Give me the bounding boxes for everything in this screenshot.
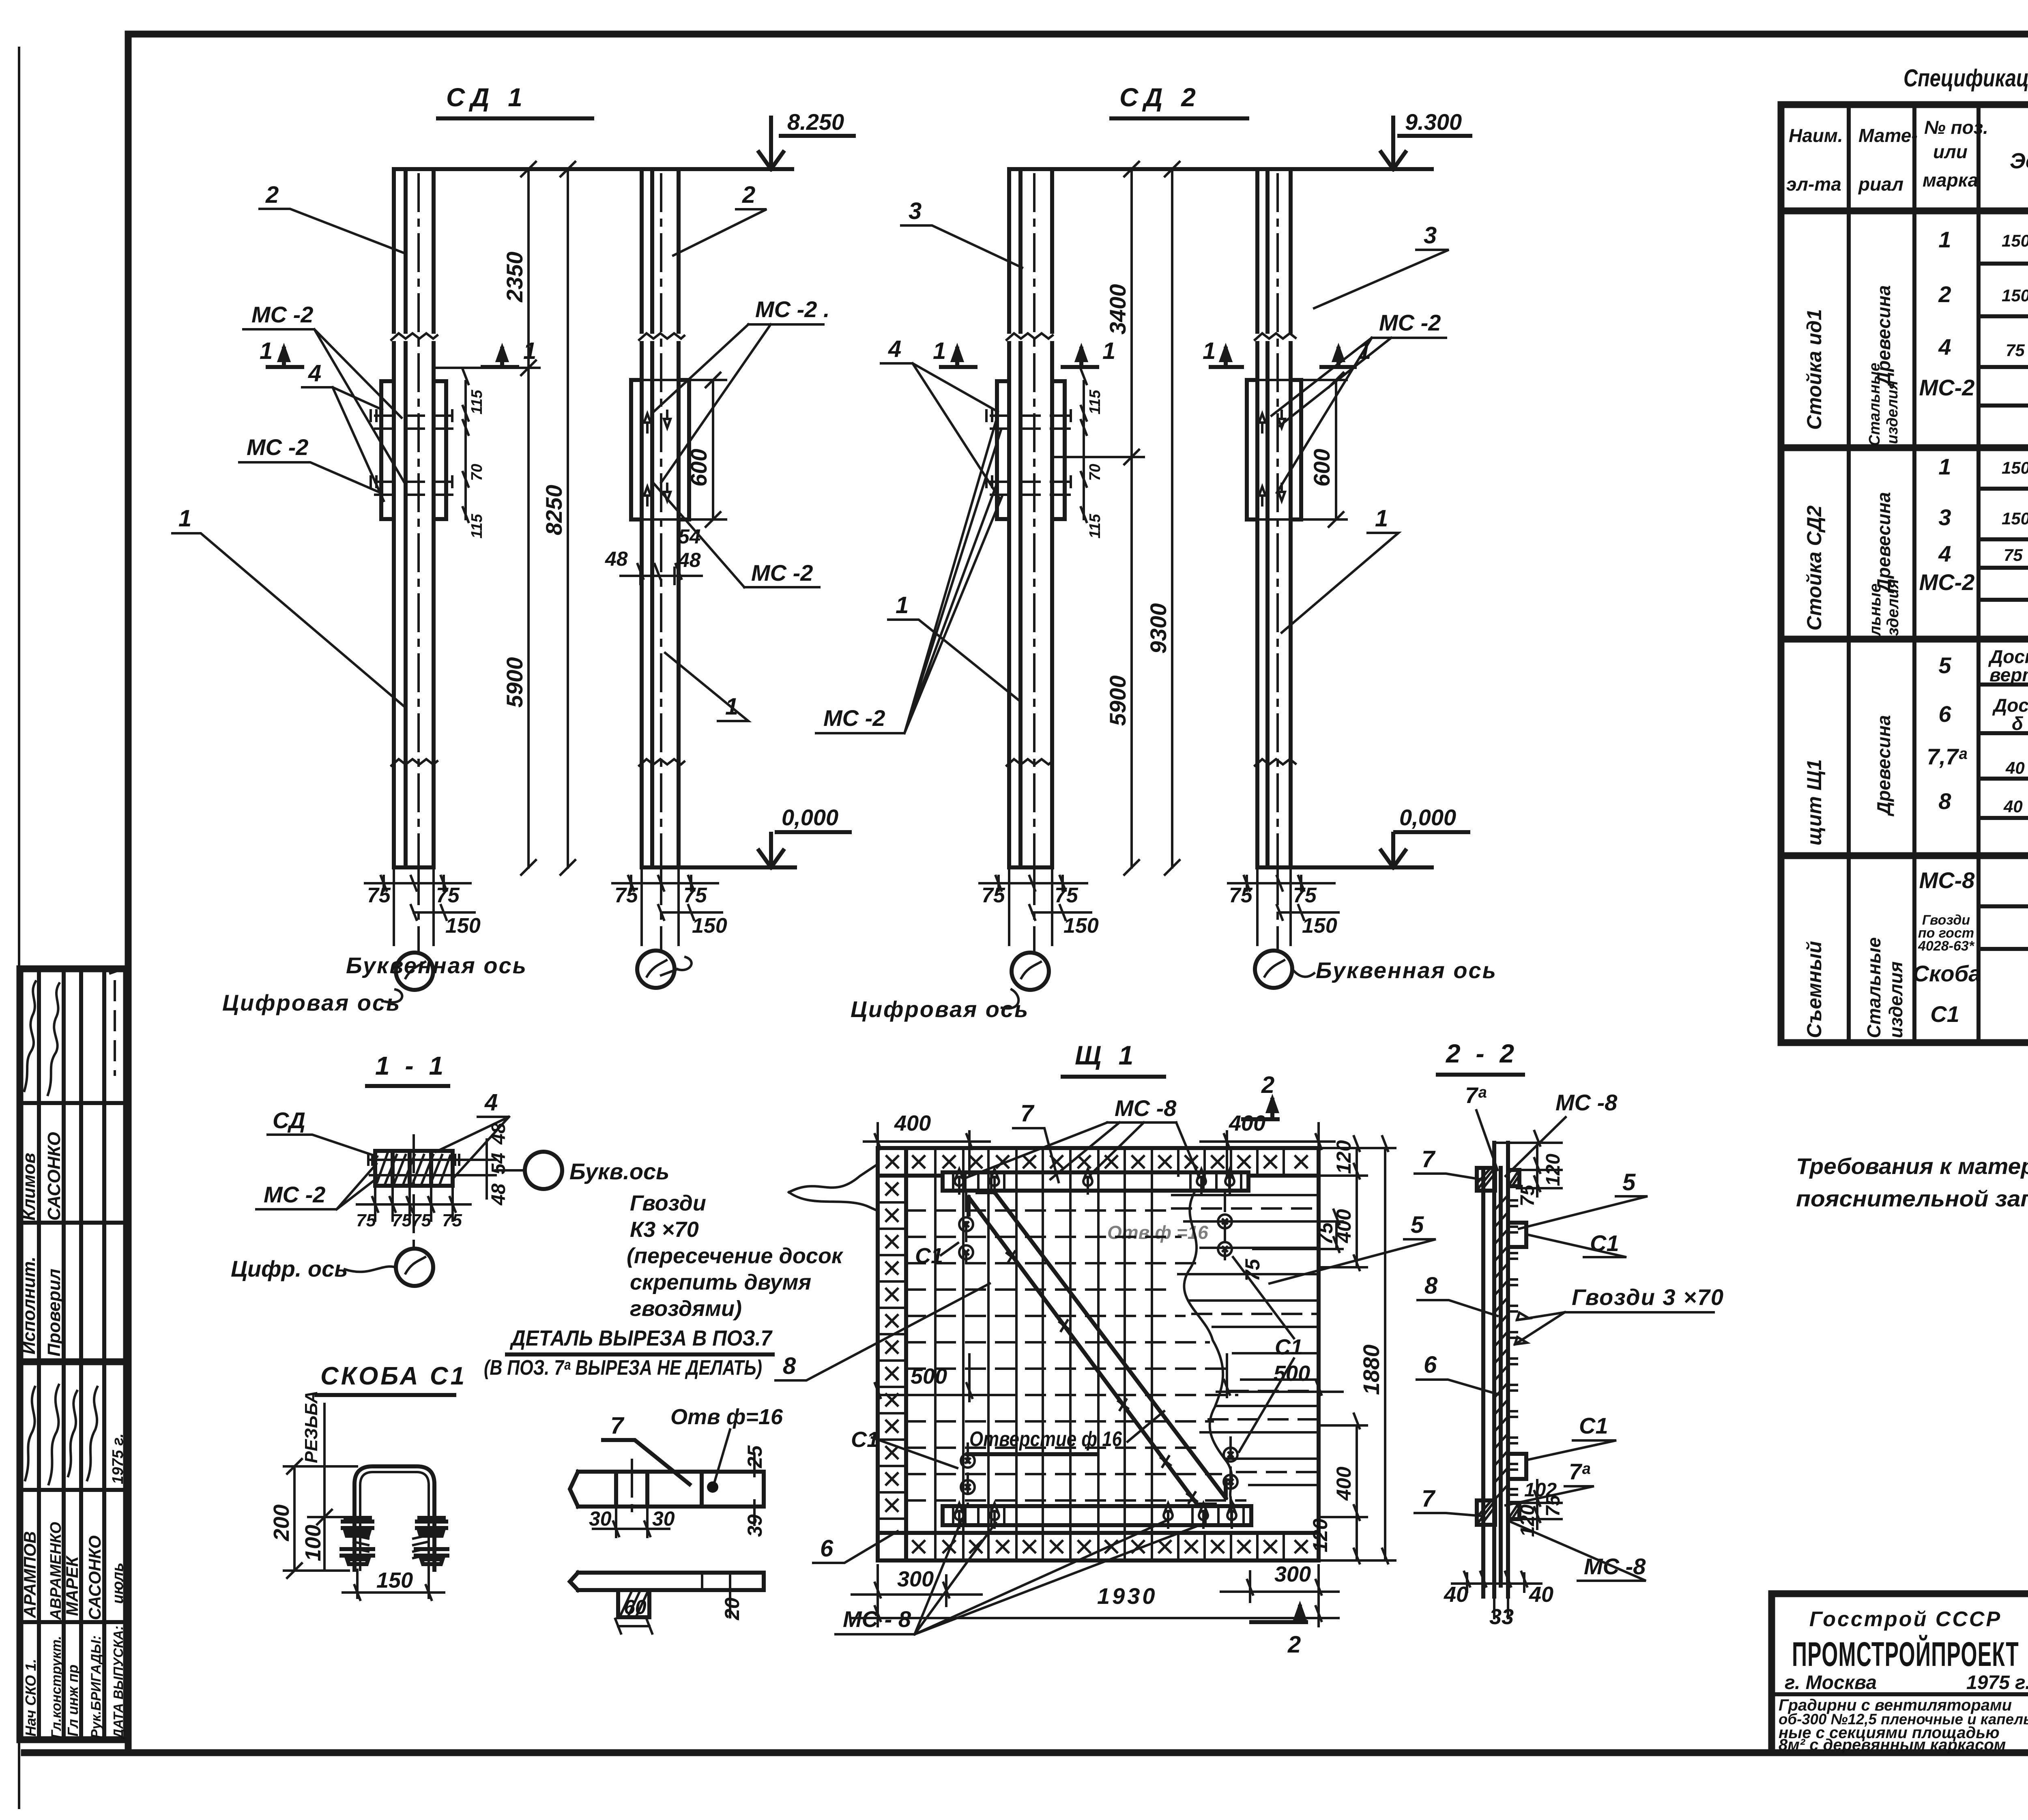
dim 600 (B) xyxy=(706,373,720,527)
2-2 staple top xyxy=(1508,1223,1526,1247)
svg-text:(В ПОЗ. 7ᵃ ВЫРЕЗА НЕ ДЕЛАТЬ): (В ПОЗ. 7ᵃ ВЫРЕЗА НЕ ДЕЛАТЬ) xyxy=(484,1356,762,1380)
svg-text:300: 300 xyxy=(897,1567,934,1591)
break mark D1 xyxy=(1255,333,1295,340)
svg-text:120: 120 xyxy=(1332,1140,1355,1174)
svg-text:40: 40 xyxy=(1529,1582,1553,1607)
svg-text:7ᵃ: 7ᵃ xyxy=(1569,1459,1590,1484)
svg-text:изделия: изделия xyxy=(1885,962,1906,1038)
x marks bottom band xyxy=(913,1541,924,1552)
svg-text:9.300: 9.300 xyxy=(1405,109,1462,135)
dims 60 20 xyxy=(615,1619,652,1633)
right dim chain 120/400 top xyxy=(1319,1136,1395,1270)
axis circle D xyxy=(1255,951,1292,988)
1-1 bottom dims 75x4 xyxy=(357,1186,470,1221)
axis circle C xyxy=(1012,953,1049,990)
svg-text:75: 75 xyxy=(614,884,638,907)
dim line A2: 8250 xyxy=(567,169,569,867)
svg-text:75: 75 xyxy=(442,1210,462,1230)
joint extent lines D xyxy=(1257,380,1347,519)
svg-text:150: 150 xyxy=(2002,509,2028,528)
wavy break boundary xyxy=(1184,1192,1235,1506)
left cell: org xyxy=(1772,1692,2028,1696)
bottom dims D xyxy=(1228,867,1338,945)
bar bottom view xyxy=(570,1573,764,1590)
break mark B1 xyxy=(639,333,684,340)
svg-text:МС -2: МС -2 xyxy=(251,302,313,327)
svg-text:5: 5 xyxy=(1411,1212,1424,1238)
svg-text:ДЕТАЛЬ ВЫРЕЗА В ПОЗ.7: ДЕТАЛЬ ВЫРЕЗА В ПОЗ.7 xyxy=(509,1326,773,1350)
svg-text:риал: риал xyxy=(1858,174,1903,195)
svg-text:Эскиз: Эскиз xyxy=(2010,149,2028,173)
dim line C1: 3400/5900 xyxy=(1052,169,1144,867)
2-2 plank end ticks xyxy=(1508,1200,1517,1495)
nail marks on brace xyxy=(1007,1251,1197,1503)
staple dims 75 xyxy=(1253,1210,1343,1252)
svg-text:МС -2: МС -2 xyxy=(751,560,813,586)
right dim chain 400/120 bottom xyxy=(1319,1414,1395,1563)
svg-text:Гл.конструкт.: Гл.конструкт. xyxy=(49,1636,64,1738)
Букв.ось circle (1-1) xyxy=(525,1152,562,1189)
top extension line СД2 xyxy=(1009,167,1432,171)
dims 30 30 xyxy=(593,1507,669,1537)
top band cell dividers xyxy=(935,1148,1284,1176)
svg-text:500: 500 xyxy=(911,1364,947,1389)
section divider thick lines xyxy=(1781,448,2028,856)
svg-text:Древесина: Древесина xyxy=(1873,715,1894,817)
svg-text:7: 7 xyxy=(1422,1485,1436,1512)
dim 1880 xyxy=(1382,1136,1388,1563)
break mark C2 xyxy=(1007,759,1053,766)
2-2 bottom batten block xyxy=(1477,1500,1495,1525)
svg-text:САСОНКО: САСОНКО xyxy=(85,1535,104,1620)
left x-band line xyxy=(904,1148,908,1560)
break mark A1 xyxy=(391,333,437,340)
paper edge trim line xyxy=(18,48,20,1808)
svg-text:Цифровая ось: Цифровая ось xyxy=(851,996,1029,1022)
svg-text:3: 3 xyxy=(1424,222,1437,249)
svg-text:СД: СД xyxy=(273,1107,305,1133)
svg-text:изделия: изделия xyxy=(1884,381,1901,444)
svg-text:75: 75 xyxy=(1314,1222,1337,1245)
svg-text:СД 1: СД 1 xyxy=(446,83,528,112)
svg-text:Съемный: Съемный xyxy=(1803,941,1826,1038)
body rows text xyxy=(1913,225,2028,1042)
svg-text:120: 120 xyxy=(1309,1518,1332,1552)
svg-text:40: 40 xyxy=(2003,797,2023,816)
svg-text:1: 1 xyxy=(1938,227,1951,252)
svg-text:75: 75 xyxy=(1542,1494,1564,1517)
svg-text:5900: 5900 xyxy=(1105,675,1130,726)
post outline xyxy=(394,169,434,867)
break mark D2 xyxy=(1255,759,1295,766)
svg-text:75: 75 xyxy=(356,1210,376,1230)
svg-text:1: 1 xyxy=(933,338,946,364)
svg-text:Стальные: Стальные xyxy=(1863,937,1884,1038)
svg-text:25: 25 xyxy=(743,1445,766,1468)
svg-text:марка: марка xyxy=(1923,170,1978,191)
svg-text:Проверил: Проверил xyxy=(44,1269,64,1356)
svg-text:Нач СКО 1.: Нач СКО 1. xyxy=(22,1659,39,1736)
svg-text:8: 8 xyxy=(1424,1273,1438,1299)
svg-text:пояснительной записки.: пояснительной записки. xyxy=(1796,1186,2028,1211)
svg-text:7: 7 xyxy=(1020,1100,1035,1127)
post axis xyxy=(417,174,420,867)
svg-text:5900: 5900 xyxy=(502,657,527,708)
left band cell dividers xyxy=(878,1202,906,1519)
frame bottom line xyxy=(24,1749,2028,1756)
svg-text:7: 7 xyxy=(610,1412,625,1439)
lower stamp rotated labels xyxy=(20,1434,127,1740)
svg-text:4028-63*: 4028-63* xyxy=(1918,938,1975,954)
svg-text:Требования к материалам и и: Требования к материалам и их изготовлени… xyxy=(1796,1153,2028,1179)
bottom line C xyxy=(1009,865,1052,869)
2-2 staple bottom xyxy=(1508,1454,1526,1479)
bottom dims A: 75 75 150 xyxy=(365,867,475,945)
svg-text:скрепить двумя: скрепить двумя xyxy=(630,1270,811,1294)
svg-text:40: 40 xyxy=(1444,1582,1468,1607)
wavy leaders to panel xyxy=(789,1165,877,1192)
svg-text:115: 115 xyxy=(468,390,486,414)
svg-text:Отверстие ф 16: Отверстие ф 16 xyxy=(969,1427,1122,1451)
svg-text:75: 75 xyxy=(2006,341,2025,360)
svg-text:СД 2: СД 2 xyxy=(1119,83,1201,112)
svg-text:Стойка СД2: Стойка СД2 xyxy=(1803,505,1826,631)
svg-text:75: 75 xyxy=(392,1210,412,1230)
svg-text:2: 2 xyxy=(1938,281,1951,307)
svg-text:2: 2 xyxy=(1287,1631,1301,1658)
svg-text:Цифровая ось: Цифровая ось xyxy=(222,990,401,1015)
batten bolts bottom xyxy=(955,1503,964,1528)
svg-text:33: 33 xyxy=(1489,1605,1514,1629)
svg-text:75: 75 xyxy=(436,884,460,907)
svg-text:Стойка ид1: Стойка ид1 xyxy=(1803,309,1826,430)
svg-text:115: 115 xyxy=(1087,514,1104,539)
svg-text:5: 5 xyxy=(1938,652,1951,678)
svg-text:СКОБА С1: СКОБА С1 xyxy=(320,1362,467,1390)
top batten pos7 xyxy=(943,1172,1248,1191)
svg-text:(пересечение досок: (пересечение досок xyxy=(627,1244,844,1268)
svg-text:щит Щ1: щит Щ1 xyxy=(1803,759,1826,846)
svg-text:Исполнит.: Исполнит. xyxy=(19,1257,39,1354)
svg-text:4: 4 xyxy=(1938,541,1951,567)
1-1 bolts xyxy=(368,1155,459,1175)
svg-text:70: 70 xyxy=(1087,464,1104,481)
svg-text:С1: С1 xyxy=(1930,1001,1959,1027)
svg-text:48: 48 xyxy=(605,547,628,570)
bottom batten xyxy=(943,1506,1251,1525)
svg-text:600: 600 xyxy=(686,449,711,487)
svg-text:4: 4 xyxy=(484,1089,498,1116)
svg-text:1930: 1930 xyxy=(1097,1583,1158,1609)
svg-text:Спецификация материалов на: Спецификация материалов на один элемент xyxy=(1903,64,2028,92)
svg-text:2: 2 xyxy=(742,182,755,208)
svg-text:2 - 2: 2 - 2 xyxy=(1446,1039,1518,1068)
svg-text:150: 150 xyxy=(692,914,727,938)
svg-text:Климов: Климов xyxy=(19,1153,39,1221)
header bottom line xyxy=(1781,208,2028,215)
svg-text:САСОНКО: САСОНКО xyxy=(44,1132,64,1221)
nuts and washers xyxy=(343,1518,372,1536)
batten bolts top xyxy=(955,1169,964,1193)
svg-text:АВРАМЕНКО: АВРАМЕНКО xyxy=(47,1522,64,1620)
bolts C row1 xyxy=(991,416,1071,429)
svg-text:150: 150 xyxy=(376,1568,413,1592)
svg-text:Цифр. ось: Цифр. ось xyxy=(231,1256,348,1281)
dim 150 xyxy=(343,1570,444,1600)
svg-text:эл-та: эл-та xyxy=(1786,174,1841,195)
bar top view xyxy=(570,1472,764,1507)
staples С1 top-right xyxy=(1218,1215,1232,1228)
panel outer rect xyxy=(878,1148,1319,1560)
svg-text:75: 75 xyxy=(1055,884,1078,907)
svg-text:МС -2: МС -2 xyxy=(264,1182,325,1207)
title block frame xyxy=(1772,1594,2028,1753)
svg-text:2: 2 xyxy=(265,182,279,208)
1-1 packet cross-section xyxy=(375,1151,453,1186)
svg-text:8м² с деревянным каркасом: 8м² с деревянным каркасом xyxy=(1779,1736,2006,1754)
svg-text:1 - 1: 1 - 1 xyxy=(375,1051,447,1080)
dashed lines right half offset xyxy=(1172,1208,1319,1472)
svg-text:7ᵃ: 7ᵃ xyxy=(1465,1082,1487,1108)
svg-text:75: 75 xyxy=(683,884,707,907)
svg-text:Букв.ось: Букв.ось xyxy=(569,1159,669,1184)
svg-text:МС-8: МС-8 xyxy=(1919,867,1975,893)
svg-text:150: 150 xyxy=(2002,458,2028,477)
svg-text:3: 3 xyxy=(1938,504,1951,530)
svg-text:54: 54 xyxy=(678,525,701,548)
svg-text:МС -2: МС -2 xyxy=(1379,310,1441,335)
2-2 top plate right xyxy=(1508,1170,1519,1186)
svg-text:МС-2: МС-2 xyxy=(1919,375,1975,400)
svg-text:4: 4 xyxy=(308,360,321,386)
svg-text:Буквенная ось: Буквенная ось xyxy=(346,953,527,978)
diagonal brace pos8 xyxy=(969,1192,1226,1505)
svg-text:Отв ф =16: Отв ф =16 xyxy=(1107,1222,1208,1243)
svg-text:Скоба: Скоба xyxy=(1913,961,1981,986)
svg-text:С1: С1 xyxy=(1579,1413,1608,1438)
svg-text:75: 75 xyxy=(1229,884,1253,907)
svg-text:30: 30 xyxy=(589,1507,612,1530)
2-2 top batten block xyxy=(1477,1168,1495,1191)
svg-text:г. Москва: г. Москва xyxy=(1785,1672,1877,1693)
svg-text:МС -2: МС -2 xyxy=(823,705,885,731)
dim line A1: 2350/5900 xyxy=(434,169,539,867)
svg-text:Гвозди: Гвозди xyxy=(630,1191,706,1215)
svg-text:70: 70 xyxy=(468,464,486,481)
svg-text:6: 6 xyxy=(820,1535,834,1562)
svg-text:Щ 1: Щ 1 xyxy=(1075,1040,1138,1070)
svg-text:75: 75 xyxy=(1241,1258,1264,1281)
svg-text:1: 1 xyxy=(1938,454,1951,479)
svg-text:60: 60 xyxy=(624,1596,647,1618)
upper stamp rotated labels xyxy=(19,1132,64,1356)
svg-text:8: 8 xyxy=(1938,788,1951,814)
svg-text:РЕЗЬБА: РЕЗЬБА xyxy=(301,1391,321,1463)
svg-text:400: 400 xyxy=(1229,1111,1265,1135)
bolt marks B xyxy=(644,414,651,505)
svg-text:ДАТА ВЫПУСКА:: ДАТА ВЫПУСКА: xyxy=(111,1626,126,1740)
svg-text:1: 1 xyxy=(260,338,273,364)
top x-band line xyxy=(878,1174,1319,1178)
break mark C1 xyxy=(1007,333,1053,340)
top extension line СД1 xyxy=(394,167,792,171)
svg-text:400: 400 xyxy=(1332,1466,1355,1501)
dims 48 54 48 (1-1) xyxy=(453,1140,496,1198)
svg-text:75: 75 xyxy=(1293,884,1317,907)
svg-text:120: 120 xyxy=(1517,1505,1538,1537)
svg-text:1: 1 xyxy=(178,505,191,532)
svg-text:3: 3 xyxy=(909,198,922,224)
svg-text:зделия: зделия xyxy=(1884,579,1902,636)
svg-text:150: 150 xyxy=(1302,914,1337,938)
staples С1 top-left xyxy=(959,1217,973,1231)
dim chain 115-70-115 (C) xyxy=(1081,369,1087,522)
staples С1 bottom-right xyxy=(1224,1448,1237,1462)
svg-text:АРАМПОВ: АРАМПОВ xyxy=(20,1531,39,1618)
thread squiggles xyxy=(354,1535,368,1558)
hidden plank lines dashed (left half) xyxy=(906,1210,1245,1500)
break mark A2 xyxy=(391,759,437,766)
1-1 center axis xyxy=(412,1135,415,1249)
svg-text:20: 20 xyxy=(721,1597,743,1620)
dim chain 115-70-115 (A) xyxy=(463,369,468,522)
2-2 bottom dims 40/33/40 xyxy=(1452,1561,1541,1592)
bottom band cell dividers xyxy=(935,1533,1284,1560)
svg-text:48: 48 xyxy=(488,1122,509,1145)
svg-text:гвоздями): гвоздями) xyxy=(630,1296,742,1321)
svg-text:Гвозди 3 ×70: Гвозди 3 ×70 xyxy=(1572,1284,1724,1310)
U-bolt xyxy=(354,1466,434,1570)
signature stamp table (rotated, left margin) xyxy=(20,969,127,1740)
svg-text:МС -8: МС -8 xyxy=(1555,1090,1618,1115)
bolts A row1 xyxy=(375,416,452,429)
spec table outer frame xyxy=(1781,105,2028,1043)
svg-text:МАРЕК: МАРЕК xyxy=(62,1555,82,1616)
svg-text:Буквенная ось: Буквенная ось xyxy=(1316,957,1497,983)
svg-text:150: 150 xyxy=(1063,914,1099,938)
bottom x-band line xyxy=(878,1531,1319,1535)
joint packet C xyxy=(997,381,1065,519)
svg-text:6: 6 xyxy=(1424,1352,1437,1378)
svg-text:Мате-: Мате- xyxy=(1858,125,1918,146)
svg-text:48: 48 xyxy=(488,1183,509,1206)
bottom dims B xyxy=(612,867,722,945)
2-2 strip core xyxy=(1483,1143,1508,1597)
table column lines xyxy=(1849,105,2028,1043)
svg-text:1880: 1880 xyxy=(1358,1344,1384,1395)
svg-text:1: 1 xyxy=(896,592,909,618)
axis circle A xyxy=(396,953,433,990)
svg-text:МС -8: МС -8 xyxy=(1115,1095,1177,1121)
lower stamp signatures xyxy=(25,1387,35,1480)
2-2 bottom plate right xyxy=(1508,1503,1519,1519)
svg-text:400: 400 xyxy=(894,1111,931,1135)
svg-text:200: 200 xyxy=(269,1505,294,1541)
vertical plank lines (left half) xyxy=(935,1176,1152,1533)
svg-text:5: 5 xyxy=(1622,1169,1636,1195)
svg-text:1: 1 xyxy=(523,338,536,364)
svg-text:30: 30 xyxy=(652,1507,675,1530)
svg-text:МС -2 .: МС -2 . xyxy=(755,296,830,322)
joint cover planks B xyxy=(631,380,689,519)
svg-text:Отв ф=16: Отв ф=16 xyxy=(670,1405,783,1429)
svg-text:С1: С1 xyxy=(1275,1335,1303,1359)
svg-text:100: 100 xyxy=(301,1525,325,1561)
svg-text:75: 75 xyxy=(982,884,1005,907)
staples С1 bottom-left xyxy=(961,1454,975,1468)
svg-text:1975 г.: 1975 г. xyxy=(1966,1672,2028,1693)
svg-text:льные: льные xyxy=(1866,584,1884,637)
svg-text:1: 1 xyxy=(1102,338,1115,364)
svg-text:150: 150 xyxy=(2002,286,2028,305)
svg-text:75: 75 xyxy=(2004,545,2023,564)
break mark B2 xyxy=(639,759,684,766)
svg-text:8.250: 8.250 xyxy=(787,109,844,135)
joint cover planks D xyxy=(1247,380,1301,519)
svg-text:3400: 3400 xyxy=(1105,284,1130,335)
svg-text:75: 75 xyxy=(367,884,391,907)
dims 25 39 xyxy=(753,1456,756,1525)
svg-text:9300: 9300 xyxy=(1145,603,1171,654)
svg-text:2350: 2350 xyxy=(502,251,527,303)
col2 rotated materials xyxy=(1863,285,1906,1038)
dim line C2: 9300 xyxy=(1171,169,1173,867)
upper stamp signatures (cursive scribbles) xyxy=(24,981,36,1091)
bolts C row2 xyxy=(991,482,1071,495)
svg-text:120: 120 xyxy=(1542,1154,1564,1186)
svg-text:Древесина: Древесина xyxy=(1873,492,1894,594)
bolt marks D xyxy=(1259,414,1265,505)
svg-text:Стальные: Стальные xyxy=(1866,363,1883,446)
svg-text:Рук.БРИГАДЫ:: Рук.БРИГАДЫ: xyxy=(88,1635,104,1738)
svg-text:0,000: 0,000 xyxy=(1399,805,1456,830)
svg-text:1: 1 xyxy=(1203,338,1216,364)
svg-text:150: 150 xyxy=(2002,231,2028,250)
Цифр.ось circle (1-1) xyxy=(396,1249,433,1286)
row lines СД2 xyxy=(1979,489,2028,600)
svg-text:С1: С1 xyxy=(915,1244,943,1268)
svg-text:К3 ×70: К3 ×70 xyxy=(630,1217,699,1242)
svg-text:115: 115 xyxy=(1087,390,1104,414)
svg-text:600: 600 xyxy=(1309,449,1334,487)
svg-text:июль: июль xyxy=(110,1562,127,1604)
joint extent lines B xyxy=(642,380,726,519)
svg-text:75: 75 xyxy=(411,1210,431,1230)
row lines СД1 xyxy=(1979,264,2028,406)
svg-text:МС-2: МС-2 xyxy=(1919,569,1975,595)
svg-text:1: 1 xyxy=(1375,505,1388,532)
svg-text:115: 115 xyxy=(468,514,486,539)
2-2 right dims top 120/75 xyxy=(1508,1131,1562,1196)
svg-text:верть δ =19: верть δ =19 xyxy=(1989,664,2028,685)
svg-text:ПРОМСТРОЙПРОЕКТ: ПРОМСТРОЙПРОЕКТ xyxy=(1792,1635,2019,1673)
svg-text:№ поз.: № поз. xyxy=(1924,117,1988,138)
header texts xyxy=(1786,115,2028,212)
svg-text:6: 6 xyxy=(1938,701,1951,727)
2-2 hatch in core xyxy=(1494,1195,1508,1500)
dim 600 (D) xyxy=(1329,373,1343,527)
bolts A row2 xyxy=(375,482,452,495)
svg-text:4: 4 xyxy=(1938,334,1951,360)
x marks top band xyxy=(887,1156,898,1168)
svg-text:48: 48 xyxy=(678,549,701,571)
svg-text:150: 150 xyxy=(445,914,481,938)
dim 200 xyxy=(284,1459,357,1578)
svg-text:0,000: 0,000 xyxy=(782,805,838,830)
svg-text:1: 1 xyxy=(1358,338,1371,364)
dim 100 xyxy=(308,1404,357,1571)
svg-text:МС -2: МС -2 xyxy=(247,434,308,460)
